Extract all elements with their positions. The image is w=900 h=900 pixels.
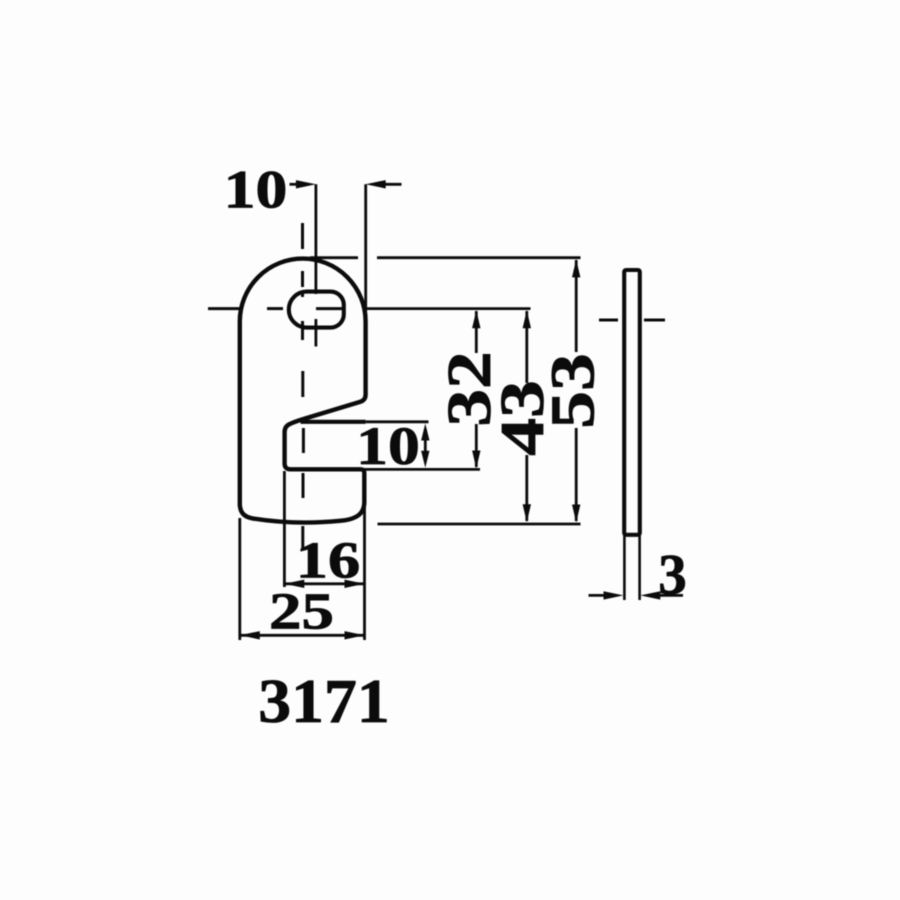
53 dim line x=576.2 — [575, 260, 578, 521]
svg-text:25: 25 — [269, 583, 334, 640]
32 dim line x=476.3 — [475, 311, 478, 467]
left extension x=240 (25 dim) — [238, 518, 241, 640]
part outline front view — [240, 259, 366, 523]
25 dim line y=635.3 — [240, 634, 365, 637]
hole (slot) in head — [289, 292, 344, 328]
right extension x=364.5 (16/25 dims) — [363, 505, 366, 640]
bottom extension y=524 (to 43/53) — [378, 523, 581, 526]
hole-center extension to right y=308.6 — [366, 307, 531, 310]
slot top extension y=421.8 — [366, 420, 429, 423]
hole-center vertical extension x=315.9 — [314, 184, 317, 346]
slot 10 dim line x=425.3 with inside arrows — [424, 429, 427, 461]
side view extension lines for 3 dim — [624, 536, 639, 600]
svg-text:16: 16 — [296, 531, 360, 589]
top extension line y=257.7 (to 53 dim) — [310, 256, 581, 259]
side view centerline y=319.3 — [599, 319, 665, 322]
svg-text:10: 10 — [224, 159, 288, 219]
SIDE VIEW plate — [624, 270, 640, 535]
svg-text:3: 3 — [658, 544, 687, 607]
3 dim line y=595.4: arrows outside — [589, 594, 684, 597]
svg-text:3171: 3171 — [258, 667, 389, 736]
43 dim line x=526.8 — [525, 311, 528, 521]
16 extension x=284.4 — [283, 471, 286, 587]
horizontal centerline of hole y=308.6 — [208, 307, 342, 310]
vertical centerline x=302.5 (chain dashes) — [301, 223, 305, 548]
svg-text:53: 53 — [538, 353, 607, 429]
slot bottom extension y=469.4 — [364, 468, 480, 471]
right vertical extension x=365.7 (top 10 dim) — [364, 184, 367, 322]
16 dim line y=583.8 — [284, 582, 364, 585]
slot top edge (outline) — [301, 420, 366, 424]
svg-text:10: 10 — [356, 416, 420, 476]
top dim 10: arrows outside — [290, 183, 402, 186]
